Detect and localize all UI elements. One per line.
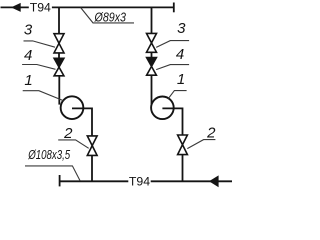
wire bottom header pipe T94 right segment bbox=[151, 180, 232, 182]
svg-text:3: 3 bbox=[24, 21, 33, 38]
wire right branch between valve 3 and valve 4 bbox=[151, 52, 153, 57]
leader for label 1 right bbox=[168, 91, 186, 99]
valve 2 left (gate valve bowtie) bbox=[87, 136, 97, 146]
leader for label 1 left bbox=[23, 91, 64, 101]
node bottom header start terminator tick bbox=[59, 175, 61, 186]
svg-text:Т94: Т94 bbox=[129, 175, 150, 189]
svg-text:1: 1 bbox=[24, 72, 32, 89]
leader for label 3 right bbox=[156, 41, 189, 48]
wire left pump discharge with corner down bbox=[72, 108, 92, 135]
node top header end terminator tick bbox=[173, 3, 175, 13]
svg-text:4: 4 bbox=[24, 47, 32, 64]
leader for label 4 left bbox=[22, 65, 55, 70]
svg-text:1: 1 bbox=[177, 71, 185, 88]
leader for pipe size label Ø108x3,5 bbox=[25, 166, 80, 181]
wire left branch pump suction bbox=[58, 76, 60, 105]
wire right branch valve 2 to bottom header bbox=[182, 155, 184, 182]
wire top header pipe T94 right segment bbox=[52, 6, 174, 8]
wire left branch between valve 3 and valve 4 bbox=[58, 53, 60, 58]
wire right branch pump suction bbox=[151, 75, 153, 104]
valve 4 left (check valve, upper triangle filled) bbox=[54, 58, 64, 67]
wire left branch riser from header to valve 3 bbox=[58, 7, 60, 33]
flow arrow bottom header pointing left bbox=[209, 175, 219, 187]
leader for label 2 right bbox=[187, 140, 215, 149]
wire right branch riser from header to valve 3 bbox=[151, 7, 153, 33]
pump 1 left (circle with discharge radius) bbox=[61, 96, 84, 119]
valve 3 left (gate valve bowtie) bbox=[54, 34, 64, 44]
svg-text:2: 2 bbox=[63, 125, 73, 142]
leader for pipe size label Ø89x3 bbox=[81, 8, 134, 23]
valve 2 right (gate valve bowtie) bbox=[178, 135, 188, 145]
wire right pump discharge with corner down bbox=[162, 108, 182, 135]
svg-text:Т94: Т94 bbox=[30, 1, 51, 15]
wire bottom header pipe T94 left segment bbox=[60, 180, 129, 182]
leader for label 2 left bbox=[58, 140, 88, 148]
svg-text:Ø89x3: Ø89x3 bbox=[94, 10, 126, 24]
pump 1 right (circle with discharge radius) bbox=[151, 97, 174, 120]
svg-text:Ø108x3,5: Ø108x3,5 bbox=[27, 148, 70, 162]
leader for label 3 left bbox=[24, 41, 56, 47]
svg-text:2: 2 bbox=[206, 125, 216, 142]
wire left branch valve 2 to bottom header bbox=[91, 155, 93, 181]
leader for label 4 right bbox=[156, 65, 189, 70]
flow arrow top header pointing left bbox=[11, 3, 21, 12]
svg-text:4: 4 bbox=[176, 46, 184, 63]
wire top header pipe T94 left segment bbox=[1, 6, 29, 8]
valve 3 right (gate valve bowtie) bbox=[147, 33, 157, 43]
valve 4 right (check valve, upper triangle filled) bbox=[147, 58, 157, 67]
svg-text:3: 3 bbox=[177, 20, 186, 37]
